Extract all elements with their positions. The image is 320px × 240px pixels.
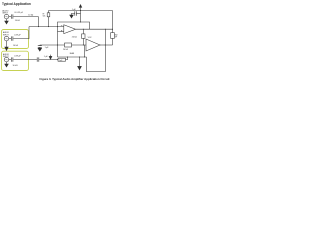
capacitor Ci1 0.39uF bbox=[11, 14, 13, 18]
op-amp U1B bbox=[86, 39, 100, 51]
wire R1 leads bbox=[82, 29, 84, 45]
node VO1 speaker tap bbox=[112, 29, 113, 30]
ground arrow under V2 bbox=[6, 41, 8, 48]
VDD arrow bbox=[80, 7, 82, 22]
label RA value bbox=[13, 45, 19, 47]
node BYPASS pin bbox=[57, 45, 58, 46]
capacitor CB box bbox=[58, 58, 66, 61]
svg-text:VO2: VO2 bbox=[88, 37, 92, 39]
wire rail down to speaker bbox=[112, 11, 114, 33]
wire U1B output VO2 bbox=[100, 44, 113, 46]
wire VDD to CS bbox=[77, 12, 81, 14]
wire V3 to C3 bbox=[9, 59, 11, 61]
source V2 audio input 2 bbox=[4, 36, 9, 41]
node j7 VO1 tap bbox=[105, 29, 106, 30]
caption: figure title bbox=[40, 77, 110, 81]
svg-text:10 kΩ: 10 kΩ bbox=[28, 15, 34, 17]
node j2 (Rf tap) bbox=[48, 26, 49, 27]
speaker LS1 8ohm bbox=[111, 33, 115, 39]
wire speaker to VO2 bbox=[112, 38, 114, 45]
label LS1 8ohm bbox=[115, 34, 118, 38]
capacitor CS bbox=[75, 11, 77, 16]
label RB value bbox=[13, 65, 19, 67]
svg-text:10 kΩ: 10 kΩ bbox=[13, 65, 19, 67]
node R1 bottom tap bbox=[83, 45, 84, 46]
ground at C5 bbox=[38, 48, 42, 51]
wire W2 input line U1B bbox=[40, 44, 86, 46]
plus mark U1A bbox=[61, 30, 62, 31]
svg-text:10 kΩ: 10 kΩ bbox=[13, 45, 19, 47]
label: audio input 3 bbox=[3, 53, 10, 58]
ground under V1 bbox=[6, 19, 8, 21]
title: Typical Application bbox=[2, 2, 31, 6]
label Ci1 value bbox=[14, 12, 24, 22]
svg-text:Ci 0.39 µF: Ci 0.39 µF bbox=[14, 12, 24, 14]
svg-text:0.39 µF: 0.39 µF bbox=[14, 56, 21, 58]
svg-text:50k: 50k bbox=[43, 16, 46, 18]
label R2 bbox=[63, 49, 69, 51]
svg-text:INPUT: INPUT bbox=[3, 34, 10, 36]
capacitor C4 series bbox=[37, 57, 39, 61]
label Ri bbox=[28, 15, 34, 17]
source V1 audio input 1 bbox=[4, 14, 9, 19]
highlight box A (input source 2) bbox=[2, 30, 29, 49]
wire feedback rail bbox=[49, 10, 113, 12]
wire V1 to C1 bbox=[9, 16, 11, 18]
op-amp U1A bbox=[64, 25, 76, 34]
label CS 1uF bbox=[72, 9, 77, 11]
label CB value bbox=[59, 60, 64, 62]
capacitor C5 bypass to ground bbox=[39, 44, 41, 46]
svg-text:20 kΩ: 20 kΩ bbox=[72, 37, 78, 39]
label C5 1uF bbox=[45, 47, 50, 49]
wire C3 to C4 bbox=[13, 59, 37, 61]
node j1 bbox=[38, 26, 39, 27]
svg-text:20 kΩ: 20 kΩ bbox=[63, 49, 69, 51]
ground arrow marker bbox=[50, 55, 52, 57]
capacitor Ci2 0.39uF bbox=[11, 36, 13, 40]
wire C2 right and up to IN- line bbox=[13, 27, 29, 39]
svg-text:BIAS: BIAS bbox=[70, 52, 75, 55]
wire CS to ground bbox=[72, 13, 75, 15]
wire C1 to node j1 bbox=[13, 16, 38, 18]
label VO2 bbox=[88, 37, 92, 39]
svg-text:Typical Application: Typical Application bbox=[2, 2, 31, 6]
resistor R1 20k feedback U1B bbox=[82, 34, 85, 39]
wire Rf leads bbox=[48, 11, 50, 27]
node VDD pin bbox=[80, 22, 81, 23]
label Ci2 value bbox=[14, 35, 21, 37]
wire CB right lead up to rail bbox=[66, 57, 68, 60]
node R1 tap on VO1 bbox=[83, 29, 84, 30]
node IN- pin bbox=[57, 26, 58, 27]
bias rail IC bottom bbox=[58, 56, 87, 58]
svg-text:0.39 µF: 0.39 µF bbox=[14, 35, 21, 37]
label BIAS bbox=[70, 52, 75, 55]
node j4 bbox=[67, 57, 68, 58]
node VDD rail bbox=[80, 10, 81, 11]
highlight box B (input source 3) bbox=[2, 51, 29, 70]
svg-text:10 kΩ: 10 kΩ bbox=[15, 20, 21, 22]
ground under V3 bbox=[6, 62, 8, 64]
wire C4 to bypass pin bbox=[39, 59, 58, 61]
wire U1A + input bbox=[58, 30, 64, 32]
label Ci3 value bbox=[14, 56, 21, 58]
IC boundary box bbox=[58, 22, 90, 57]
label C4 1uF bbox=[44, 56, 49, 58]
capacitor Ci3 0.39uF bbox=[11, 57, 13, 61]
ground at bias rail bbox=[78, 66, 82, 69]
label: audio input 1 bbox=[2, 9, 9, 14]
node j5 bbox=[79, 57, 80, 58]
wire input1 down to IN- line bbox=[38, 17, 40, 27]
label Rf bbox=[43, 14, 46, 18]
wire V2 to C2 bbox=[9, 38, 11, 40]
wire ground return loop bbox=[87, 29, 106, 71]
svg-text:INPUT: INPUT bbox=[2, 12, 9, 14]
node j3 bbox=[105, 45, 106, 46]
wire IN- line bbox=[29, 26, 64, 28]
resistor R2 20k series U1B bbox=[65, 43, 72, 47]
wire U1B bias to rail bbox=[84, 45, 86, 57]
node bypass pin crossing bbox=[57, 59, 58, 60]
label R1 bbox=[72, 37, 78, 39]
wire U1A output VO1 bbox=[76, 28, 113, 30]
node j6 bbox=[84, 57, 85, 58]
ground at CS bbox=[70, 15, 74, 18]
ground stub from bias rail bbox=[79, 57, 81, 66]
minus mark U1A bbox=[61, 25, 62, 27]
label: audio input 2 bbox=[3, 31, 10, 36]
resistor Rf feedback bbox=[47, 13, 50, 17]
source V3 audio input 3 bbox=[4, 57, 9, 62]
svg-text:Figure 3. Typical Audio Ampli: Figure 3. Typical Audio Amplifier Applic… bbox=[40, 77, 110, 81]
svg-text:INPUT: INPUT bbox=[3, 56, 10, 58]
